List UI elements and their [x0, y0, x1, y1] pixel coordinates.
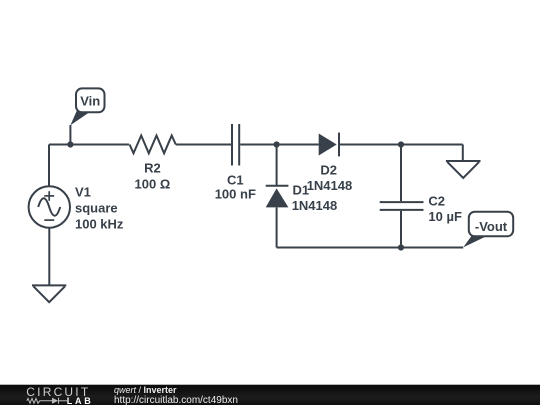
footer title qwert / Inverter [114, 385, 177, 395]
svg-text:D1: D1 [293, 182, 310, 197]
wire V1 to top rail [48, 145, 50, 187]
svg-text:Vin: Vin [80, 94, 100, 109]
node Vin flag box [76, 88, 105, 112]
V1 minus sign [44, 219, 54, 221]
logo wire to LAB [59, 399, 68, 401]
ground right vee [447, 162, 479, 178]
wire to ground right [462, 145, 464, 162]
wire C2 bottom to rail [400, 211, 402, 248]
svg-text:1N4148: 1N4148 [307, 178, 353, 193]
svg-text:V1: V1 [75, 185, 91, 200]
capacitor C1 right plate [238, 124, 240, 166]
capacitor C2 top plate [380, 201, 424, 203]
logo diode triangle [52, 397, 58, 403]
logo resistor squiggle [27, 398, 52, 403]
svg-text:100 Ω: 100 Ω [135, 177, 171, 192]
junction node C2/-Vout [398, 244, 404, 250]
wire D1 down [276, 207, 278, 247]
svg-text:1N4148: 1N4148 [292, 198, 338, 213]
node -Vout flag tail [463, 235, 489, 247]
wire Vin stub [69, 125, 71, 145]
diode D2 cathode bar [338, 133, 340, 157]
V1 plus sign [44, 195, 54, 197]
junction node D2/C2/ground [398, 141, 404, 147]
ground left top bar [32, 284, 66, 286]
svg-text:100 nF: 100 nF [215, 187, 256, 202]
footer bar [0, 384, 540, 405]
diode D1 cathode bar [266, 185, 289, 187]
capacitor C1 left plate [231, 124, 233, 166]
resistor R2 [130, 136, 176, 154]
wire node to C2 top [400, 145, 402, 202]
wire C1 to D2 [240, 144, 319, 146]
svg-text:D2: D2 [320, 163, 337, 178]
svg-text:R2: R2 [144, 161, 161, 176]
wire main top horizontal [49, 144, 129, 146]
ground left vee [33, 286, 65, 302]
diode D2 anode triangle [319, 134, 337, 156]
logo diode bar [58, 397, 60, 403]
node Vin flag tail [70, 110, 92, 125]
wire R2 to C1 [176, 144, 231, 146]
footer url text [114, 395, 238, 406]
wire V1 to ground [48, 228, 50, 286]
node -Vout flag box [469, 212, 513, 237]
svg-text:C2: C2 [428, 194, 445, 209]
svg-text:C1: C1 [227, 173, 244, 188]
svg-text:LAB: LAB [67, 395, 94, 405]
svg-text:-Vout: -Vout [475, 219, 508, 234]
svg-text:100 kHz: 100 kHz [75, 217, 124, 232]
svg-text:square: square [75, 201, 118, 216]
ground right top bar [446, 160, 481, 162]
wire bottom rail [277, 247, 464, 249]
CircuitLab logo [0, 385, 110, 406]
junction node C1/D1/D2 [274, 141, 280, 147]
junction node Vin tap [67, 141, 73, 147]
V1 wave symbol [38, 198, 60, 215]
voltage source V1 circle [29, 186, 70, 227]
wire D2 to right [339, 144, 463, 146]
wire node to D1 [276, 145, 278, 186]
capacitor C2 bottom plate [380, 209, 424, 211]
diode D1 anode triangle [266, 188, 289, 207]
svg-text:10 µF: 10 µF [428, 209, 462, 224]
